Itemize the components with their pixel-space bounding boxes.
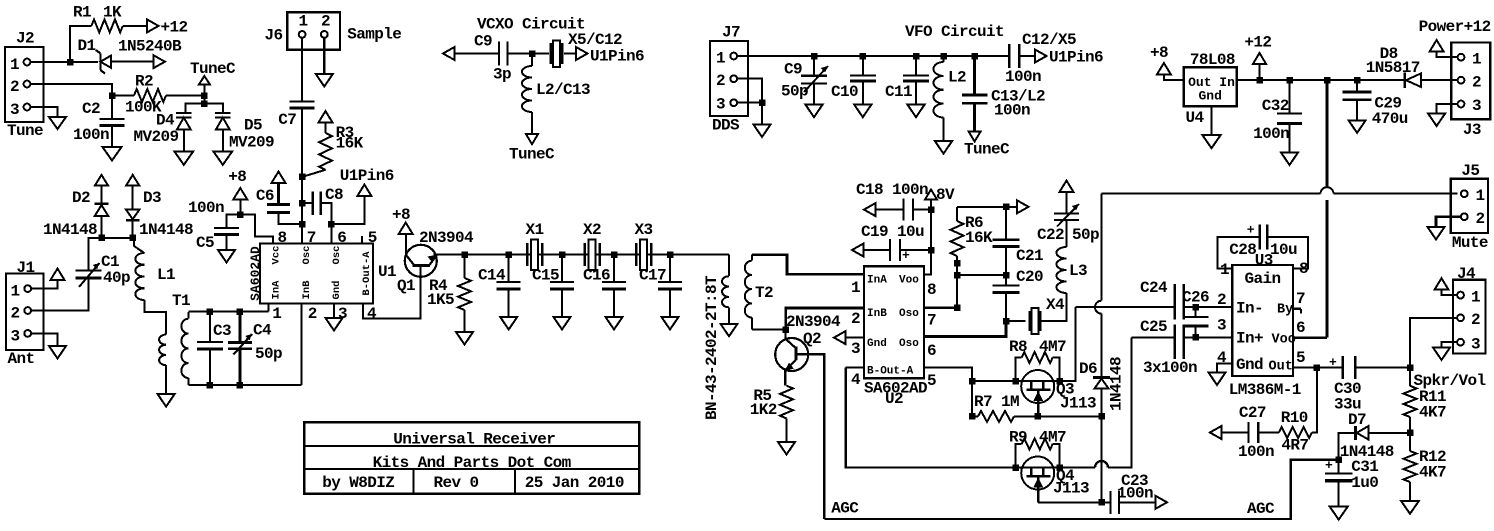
U1 pin1 wire (268, 304, 270, 312)
node C29 (1354, 77, 1361, 84)
svg-text:78L08: 78L08 (1190, 51, 1235, 69)
svg-text:DDS: DDS (712, 117, 740, 135)
wire D7 to C31 node (1339, 433, 1356, 460)
U3 pin4 ground (1217, 364, 1232, 373)
ground below C9 VFO (806, 105, 823, 118)
svg-text:3p: 3p (493, 66, 511, 84)
ground below C31 (1330, 507, 1348, 520)
svg-text:2: 2 (1217, 291, 1226, 309)
wire J3.3 to ground (1437, 104, 1458, 114)
Q2 collector wire to AGC (796, 354, 824, 519)
U1 pin4 wire to Q1 base (363, 266, 421, 319)
svg-text:50p: 50p (781, 83, 808, 101)
svg-text:2: 2 (321, 13, 330, 31)
svg-text:BN-43-2402-2T:8T: BN-43-2402-2T:8T (703, 275, 721, 420)
+8 arrow at Q1 (392, 206, 413, 234)
svg-text:100n: 100n (188, 199, 224, 217)
variable capacitor C22 50p (1037, 191, 1099, 247)
ground at J4.3 (1433, 348, 1450, 361)
wire to J4.2 (1410, 318, 1457, 368)
capacitor C25 (1140, 318, 1184, 359)
wire varactor bus (186, 104, 223, 113)
D6 vertical from Mute line (1101, 194, 1103, 301)
wire R2 to TuneC node (166, 95, 204, 97)
svg-text:J1: J1 (17, 259, 35, 277)
svg-text:T2: T2 (755, 284, 773, 302)
svg-text:Gnd: Gnd (867, 338, 887, 350)
svg-text:In-: In- (1236, 300, 1263, 318)
svg-text:LM386M-1: LM386M-1 (1229, 381, 1301, 399)
svg-text:Q1: Q1 (397, 277, 415, 295)
svg-text:L1: L1 (157, 266, 175, 284)
capacitor C9 3p (474, 33, 511, 84)
node R6 bottom (954, 305, 961, 312)
node +12 rail down (1324, 77, 1331, 84)
node J2.1/R1/D1 (67, 59, 74, 66)
svg-text:40p: 40p (103, 269, 130, 287)
+8 arrow at U4 (1150, 44, 1171, 75)
ground below C5 (218, 250, 235, 263)
wire Q3 source line to D6 (1038, 415, 1102, 417)
node C3 bottom (207, 382, 214, 389)
svg-text:1N4148: 1N4148 (43, 221, 97, 239)
capacitor C5 100n (188, 199, 240, 252)
resistor R2 (125, 73, 166, 117)
node C4 bottom (237, 382, 244, 389)
JFET Q4 J113 (1021, 457, 1089, 503)
svg-text:8V: 8V (936, 186, 955, 204)
node C26 bottom (1192, 334, 1199, 341)
svg-text:3: 3 (11, 328, 20, 346)
ground below C2 (103, 147, 122, 161)
varactor D4 MV209 (134, 112, 192, 152)
wire +8 to pin8 jog (240, 215, 273, 244)
svg-text:X4: X4 (1046, 296, 1065, 314)
node C13/L2 (971, 53, 978, 60)
capacitor C27 100n (1210, 404, 1279, 461)
wire U2 pin2 (786, 308, 864, 330)
U2 pin3 gnd arrow (846, 337, 864, 339)
svg-text:3: 3 (1217, 317, 1226, 335)
svg-text:4M7: 4M7 (1039, 338, 1066, 356)
crystal X4 (1006, 296, 1065, 334)
svg-text:D4: D4 (156, 112, 175, 130)
node C17 top (667, 251, 674, 258)
Q4 gate line (1016, 466, 1060, 468)
crystal X2 (583, 221, 601, 270)
node R10 tap (1314, 364, 1321, 371)
net arrow VCXO left (443, 47, 455, 60)
connector J6 Sample (265, 12, 402, 50)
ground at J6.2 (316, 74, 333, 87)
ground at J2.3 (49, 117, 66, 129)
wire X5 to arrow (564, 53, 576, 55)
svg-text:D5: D5 (244, 117, 262, 135)
svg-text:3: 3 (1471, 336, 1480, 354)
ground below C14 (500, 317, 517, 330)
svg-text:4M7: 4M7 (1039, 429, 1066, 447)
node +12 arrow (1256, 77, 1263, 84)
svg-text:4K7: 4K7 (1419, 404, 1446, 422)
svg-text:Power+12: Power+12 (1419, 18, 1491, 36)
svg-text:1: 1 (1472, 51, 1481, 69)
U3 out line (1293, 367, 1343, 369)
svg-text:D6: D6 (1079, 360, 1097, 378)
svg-text:4: 4 (367, 305, 377, 323)
svg-text:50p: 50p (1072, 226, 1099, 244)
capacitor C29 470u (1343, 80, 1408, 128)
svg-text:Tune: Tune (7, 122, 43, 140)
diode D3 1N4148 (126, 175, 193, 239)
svg-text:Osc: Osc (331, 246, 343, 265)
wire J7.3 to ground (761, 103, 763, 125)
svg-text:X3: X3 (635, 221, 653, 239)
svg-text:3: 3 (1472, 97, 1481, 115)
8V power arrow (925, 186, 955, 204)
resistor R10 4R7 (1279, 368, 1317, 455)
ground below R12 (1401, 501, 1419, 514)
svg-text:J2: J2 (16, 30, 34, 48)
svg-text:1: 1 (1476, 187, 1485, 205)
svg-text:100n: 100n (73, 126, 109, 144)
title block (304, 422, 639, 494)
wire J1.2 to C1 (31, 279, 88, 311)
svg-text:C21: C21 (1016, 247, 1043, 265)
node pin5/Q3 line (969, 378, 976, 385)
ground below C29 (1349, 120, 1366, 132)
net arrow U1Pin6 VFO (1035, 49, 1103, 67)
node J7.3 (759, 99, 766, 106)
svg-text:D1: D1 (78, 37, 96, 55)
node D3 on bus (129, 235, 136, 242)
net arrow above R3 (319, 111, 333, 123)
svg-text:C11: C11 (885, 83, 912, 101)
svg-text:C5: C5 (196, 234, 214, 252)
node TuneC lower (201, 100, 208, 107)
wire C7 to osc node (301, 108, 303, 177)
node R3/C7/pin7 (299, 174, 306, 181)
resistor R7 1M (972, 393, 1038, 422)
svg-text:R10: R10 (1281, 409, 1308, 427)
ground below D4 (174, 151, 193, 165)
inductor L1 (135, 253, 175, 300)
transistor Q1 2N3904 (397, 229, 474, 319)
svg-text:16K: 16K (336, 135, 364, 153)
wire J2.3 to ground (30, 107, 57, 117)
node Q2 base (782, 326, 789, 333)
net arrow at J1.1 (51, 269, 65, 281)
node R4 (461, 251, 468, 258)
svg-text:1K5: 1K5 (427, 291, 454, 309)
svg-text:By: By (1277, 303, 1293, 318)
wire T2 secondary top to U2 pin1 (752, 255, 864, 275)
node pin6/C8/U1Pin6 (328, 221, 335, 228)
ground at J3.3 (1428, 114, 1445, 127)
svg-text:L3: L3 (1069, 262, 1087, 280)
svg-text:VFO Circuit: VFO Circuit (905, 23, 1004, 41)
svg-text:Kits And Parts Dot Com: Kits And Parts Dot Com (373, 454, 572, 472)
svg-text:+: + (1247, 223, 1255, 238)
node L2 VFO (940, 53, 947, 60)
wire osc node down to pin7 (301, 177, 303, 244)
power arrow above C6 (272, 172, 286, 184)
net arrow U1Pin6 (340, 167, 394, 196)
svg-text:8: 8 (927, 281, 936, 299)
node C8 left (299, 200, 306, 207)
node C20/X4 (1003, 318, 1010, 325)
svg-text:C2: C2 (82, 100, 100, 118)
connector J1 (6, 259, 44, 368)
svg-text:Oso: Oso (899, 308, 919, 320)
wire J6.1 to C7 (301, 38, 303, 102)
node C21 top (1003, 204, 1010, 211)
ground at J7 (754, 125, 771, 138)
wire J7.2 jog (737, 79, 762, 103)
AGC bottom line (824, 460, 1338, 519)
svg-text:D3: D3 (143, 189, 161, 207)
ground below L2 VFO (935, 141, 952, 154)
capacitor C21 (993, 207, 1044, 265)
capacitor C23 100n (1111, 472, 1156, 514)
wire R1 to +12 arrow (123, 25, 147, 27)
node C31/AGC (1335, 457, 1342, 464)
node C3 top (207, 308, 214, 315)
power arrow at J3.1 (1430, 40, 1444, 52)
crystal X5/C12 (551, 31, 622, 67)
diode D7 1N4148 (1340, 411, 1410, 461)
svg-text:D7: D7 (1348, 411, 1366, 429)
svg-text:1: 1 (1220, 261, 1229, 279)
connector J4 (1453, 265, 1486, 354)
variable capacitor C4 50p (228, 312, 282, 385)
svg-text:AGC: AGC (1247, 500, 1275, 518)
svg-text:J3: J3 (1463, 121, 1481, 139)
svg-text:100n: 100n (994, 102, 1030, 120)
svg-text:100n: 100n (1238, 443, 1274, 461)
ground below C32 (1281, 153, 1298, 166)
svg-text:R7 1M: R7 1M (974, 393, 1019, 411)
wire R1 left lead (70, 26, 91, 62)
svg-text:100n: 100n (1117, 485, 1153, 503)
wire L1 to T1 (144, 300, 166, 335)
svg-text:J4: J4 (1457, 265, 1476, 283)
node Q3 source (1035, 413, 1042, 420)
capacitor C13/L2 100n (962, 56, 1045, 132)
node C32 (1286, 77, 1293, 84)
svg-text:TuneC: TuneC (190, 60, 236, 78)
svg-text:C18 100n: C18 100n (856, 181, 928, 199)
svg-text:2N3904: 2N3904 (786, 313, 841, 331)
capacitor C18 100n (856, 181, 931, 221)
svg-text:+8: +8 (228, 168, 246, 186)
svg-text:2: 2 (1472, 74, 1481, 92)
svg-text:C7: C7 (278, 111, 296, 129)
node R11/R12/D7 (1407, 430, 1414, 437)
net arrow U1Pin6 VCXO (576, 47, 644, 66)
capacitor C20 (993, 268, 1044, 321)
wire J3.2 to D8 (1421, 79, 1458, 81)
svg-text:7: 7 (307, 229, 316, 247)
wire J3.1 to power arrow (1437, 52, 1458, 58)
svg-text:Gnd: Gnd (331, 281, 343, 300)
svg-text:R1: R1 (73, 4, 91, 22)
svg-text:2: 2 (11, 305, 20, 323)
svg-text:R8: R8 (1009, 338, 1027, 356)
wire C9 to node (508, 53, 533, 55)
svg-text:C9: C9 (474, 33, 492, 51)
svg-text:J6: J6 (265, 27, 283, 45)
svg-text:1N5817: 1N5817 (1366, 59, 1420, 77)
svg-text:U1: U1 (378, 263, 396, 281)
capacitor C26 (1182, 289, 1209, 338)
svg-text:C16: C16 (583, 267, 610, 285)
node C10 (860, 53, 867, 60)
IC U2 SA602AD (864, 266, 927, 408)
svg-text:U1Pin6: U1Pin6 (340, 167, 394, 185)
wire J4.1 to power arrow (1442, 290, 1458, 295)
net arrow right of C21 (1006, 206, 1017, 208)
svg-text:X1: X1 (526, 221, 544, 239)
svg-text:C3: C3 (213, 322, 231, 340)
svg-text:C32: C32 (1262, 97, 1289, 115)
svg-text:+12: +12 (1244, 34, 1271, 52)
inductor L3 (1057, 247, 1088, 293)
power arrow above C22 (1060, 181, 1074, 193)
U1 pin3 ground wire (333, 304, 335, 319)
wire D1 to net arrow (111, 61, 154, 63)
U3 pin7 stub (1293, 308, 1301, 310)
svg-text:+12: +12 (161, 19, 188, 37)
wire to U1Pin6 arrow (331, 196, 364, 224)
wire In- from Q3 drain (1060, 307, 1076, 381)
resistor R8 4M7 (1009, 338, 1066, 381)
svg-text:Out: Out (1269, 360, 1293, 375)
svg-text:+: + (902, 248, 910, 263)
connector J7 DDS (710, 24, 748, 135)
ground below R4 (456, 332, 473, 345)
svg-text:C25: C25 (1140, 318, 1167, 336)
resistor R12 4K7 (1404, 433, 1447, 501)
svg-text:Oso: Oso (899, 338, 919, 350)
svg-text:1K2: 1K2 (750, 401, 777, 419)
connector J5 (1451, 162, 1488, 252)
wire J7.3 (737, 102, 762, 104)
svg-text:1: 1 (272, 305, 281, 323)
transformer T2 (703, 255, 773, 420)
diode D1 zener 1N5240B (78, 37, 183, 74)
connector J3 (1451, 43, 1490, 140)
capacitor C11 (885, 56, 929, 105)
svg-text:C27: C27 (1239, 404, 1266, 422)
svg-text:1: 1 (716, 50, 725, 68)
wire arrow to C9 (455, 53, 500, 55)
+12 down rail to U3 Voo (1326, 80, 1329, 187)
svg-text:L2/C13: L2/C13 (536, 81, 590, 99)
svg-text:1N4148: 1N4148 (139, 221, 193, 239)
wire J1.1 to arrow (31, 279, 57, 289)
svg-text:4K7: 4K7 (1419, 464, 1446, 482)
wire T1 secondary bottom bus (188, 384, 301, 386)
capacitor C12/X5 100n (1005, 31, 1076, 86)
svg-text:Ant: Ant (8, 350, 35, 368)
node C18/8V (928, 206, 935, 213)
capacitor C6 (256, 183, 302, 224)
svg-text:2: 2 (10, 78, 19, 96)
wire J5.2 to ground (1436, 217, 1461, 227)
svg-text:U1Pin6: U1Pin6 (1049, 49, 1103, 67)
ground below T2 primary (721, 324, 738, 337)
svg-text:TuneC: TuneC (964, 141, 1010, 159)
ground below C15 (554, 317, 571, 330)
capacitor C15 (532, 255, 574, 317)
capacitor C31 1u0 (1325, 458, 1378, 507)
svg-text:C4: C4 (253, 322, 272, 340)
node C26 top (1192, 304, 1199, 311)
svg-text:2: 2 (1476, 210, 1485, 228)
svg-text:Voo: Voo (899, 275, 919, 287)
capacitor C10 (831, 56, 876, 105)
svg-text:2: 2 (1471, 311, 1480, 329)
svg-text:6: 6 (1296, 319, 1305, 337)
svg-text:Gnd: Gnd (1236, 356, 1263, 374)
diode D2 1N4148 (43, 175, 109, 239)
capacitor C7 (278, 102, 314, 130)
+12 rail (1237, 79, 1405, 81)
svg-text:T1: T1 (172, 292, 190, 310)
wire U2 pin6 (924, 321, 1006, 336)
svg-text:U4: U4 (1186, 109, 1205, 127)
node R8 right (1056, 378, 1063, 385)
svg-text:3x100n: 3x100n (1143, 359, 1197, 377)
regulator U4 78L08 (1184, 51, 1237, 127)
U3 pin6 Voo wire to +12 rail (1293, 336, 1327, 339)
resistor R3 16K (302, 123, 364, 177)
svg-text:B-Out-A: B-Out-A (361, 251, 373, 296)
node R8 left (1012, 378, 1019, 385)
svg-text:U1Pin6: U1Pin6 (590, 48, 644, 66)
capacitor C24 (1140, 279, 1184, 320)
Mute line from D6 to J5 (1102, 193, 1321, 195)
varactor D5 MV209 (215, 113, 274, 152)
svg-text:C8: C8 (325, 186, 343, 204)
capacitor C14 (478, 255, 521, 317)
svg-text:Q2: Q2 (803, 330, 821, 348)
svg-text:U3: U3 (1255, 252, 1273, 270)
ground at U1 pin3 (326, 318, 343, 331)
node C21/C20 (1003, 272, 1010, 279)
IC U1 SA602AD (248, 244, 396, 304)
wire J2.1 to D1 node (30, 61, 98, 63)
svg-text:2: 2 (851, 310, 860, 328)
svg-text:Gnd: Gnd (1199, 89, 1222, 104)
svg-text:C15: C15 (532, 267, 559, 285)
node R9 right (1056, 464, 1063, 471)
crystal X3 (635, 221, 653, 270)
svg-text:+8: +8 (392, 206, 410, 224)
svg-text:16K: 16K (965, 229, 993, 247)
ground at J5.2 (1428, 227, 1445, 240)
svg-text:C28: C28 (1229, 241, 1256, 259)
svg-text:MV209: MV209 (134, 128, 179, 146)
svg-text:1K: 1K (103, 4, 122, 22)
svg-text:100n: 100n (1253, 125, 1289, 143)
svg-text:InB: InB (867, 308, 887, 320)
capacitor C17 (639, 255, 682, 317)
svg-text:Osc: Osc (301, 246, 313, 265)
main RF line Q1 to T2 (434, 254, 730, 256)
resistor R5 1K2 (750, 386, 793, 442)
svg-text:4: 4 (851, 371, 861, 389)
